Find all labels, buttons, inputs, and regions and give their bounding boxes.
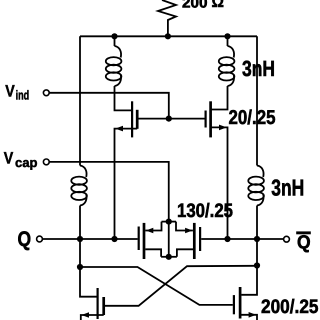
wire M5 gate <box>80 267 97 297</box>
varactor M3 130/.25 gate bar <box>138 227 140 251</box>
wire varactor bottom node line <box>161 256 177 258</box>
node Q terminal <box>37 236 43 242</box>
transistor M5 200/.25 gate bar <box>96 288 98 319</box>
junction varactor bottom <box>166 254 172 260</box>
junction varactor top <box>166 219 172 225</box>
svg-text:3nH: 3nH <box>242 56 275 81</box>
svg-text:V: V <box>4 149 14 167</box>
inductor L1 <box>114 36 116 46</box>
wire right tank lower <box>256 206 258 266</box>
svg-text:200: 200 <box>182 0 208 12</box>
svg-text:Q: Q <box>18 228 32 251</box>
resistor R1 <box>158 0 176 36</box>
M2 source arrow <box>219 125 227 131</box>
inductor L4 <box>248 166 264 206</box>
svg-text:130/.25: 130/.25 <box>177 200 233 222</box>
svg-text:Q: Q <box>297 233 311 254</box>
wire top rail <box>80 35 257 37</box>
svg-text:200/.25: 200/.25 <box>261 296 319 318</box>
svg-text:cap: cap <box>15 155 38 170</box>
svg-text:20/.25: 20/.25 <box>229 107 276 129</box>
wire Q-bar <box>201 238 283 240</box>
junction Q / left tank <box>77 236 83 242</box>
wire M2 drain to L3 <box>211 86 228 110</box>
wire V_ind <box>49 93 169 119</box>
wire Q <box>42 238 137 240</box>
transistor M5 channel bar <box>102 297 105 315</box>
M5 source arrow <box>81 312 89 318</box>
wire V_cap <box>49 162 169 222</box>
inductor L3 <box>227 36 229 46</box>
node V_cap terminal <box>43 159 49 165</box>
varactor M3 channel bar <box>143 223 146 259</box>
wire M3 drain to bottom node <box>145 249 161 256</box>
wire L1 bottom to M1 gate <box>115 86 132 110</box>
junction cross right <box>254 262 260 268</box>
M3 source arrow <box>146 228 154 234</box>
junction Q-bar / right tank <box>254 236 260 242</box>
node Q-bar terminal <box>284 236 290 242</box>
wire M2 source <box>211 127 228 239</box>
wire M5 source <box>81 315 104 320</box>
varactor M4 gate bar <box>199 227 201 251</box>
svg-text:V: V <box>5 82 15 100</box>
junction rail / R1 <box>165 33 171 39</box>
transistor M6 channel bar <box>239 287 242 319</box>
M6 source arrow <box>249 312 257 318</box>
wire M3 source to top node <box>145 222 161 231</box>
wire M1 drain / M2 gate <box>139 118 205 120</box>
transistor M1 20/.25 gate bar <box>131 101 133 137</box>
wire left tank lower <box>79 206 81 240</box>
junction rail / L3 <box>224 33 230 39</box>
wire Q-bar node down to M6 drain <box>241 266 257 295</box>
transistor M1 channel bar <box>136 110 139 129</box>
wire M4 source to top node <box>176 222 193 231</box>
wire cross-couple B M5 drain to right node <box>105 266 257 306</box>
node V_ind terminal <box>43 90 49 96</box>
transistor M2 channel bar <box>209 101 212 137</box>
wire M4 drain to bottom node <box>177 249 193 256</box>
junction Q / M1 source <box>111 236 117 242</box>
wire cross-couple A left-node to M6 gate <box>80 267 233 305</box>
transistor M2 20/.25 gate bar <box>205 111 207 128</box>
transistor M6 200/.25 gate bar <box>233 295 235 314</box>
wire Q node down to cross node <box>79 239 81 267</box>
varactor M4 channel bar <box>193 223 196 259</box>
svg-text:3nH: 3nH <box>271 174 304 200</box>
M1 source arrow <box>115 126 123 132</box>
wire M1 source <box>115 129 138 239</box>
svg-text:ind: ind <box>16 88 30 103</box>
wire varactor top node line <box>162 221 177 223</box>
wire varactor center <box>168 222 170 257</box>
wire left tank upper <box>79 36 81 165</box>
junction rail / L1 <box>111 33 117 39</box>
junction cross left <box>77 264 83 270</box>
inductor L2 <box>71 166 87 206</box>
M4 source arrow <box>185 228 193 234</box>
svg-text:Ω: Ω <box>212 0 225 11</box>
wire M6 source <box>240 315 257 320</box>
junction V_ind / M1 drain / M2 gate <box>166 116 172 122</box>
wire right tank upper <box>256 36 258 165</box>
junction Q-bar / M2 source <box>224 236 230 242</box>
